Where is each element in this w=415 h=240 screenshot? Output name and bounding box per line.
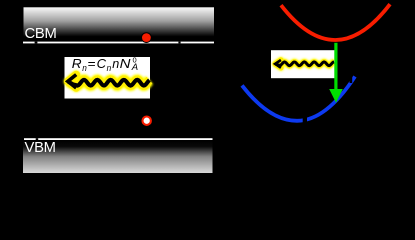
photon arrow 1 head xyxy=(68,75,76,88)
photon arrow 1 glow solid layer xyxy=(68,80,149,86)
small gap in CBM line at x=178 xyxy=(178,42,180,44)
photon wavy arrow 1 glow xyxy=(68,75,150,88)
photon wavy arrow 2 (black) xyxy=(275,62,334,66)
svg-text:n: n xyxy=(112,56,119,71)
blue band (parabola, VB dispersion) left half xyxy=(242,85,297,120)
recombination-rate formula box xyxy=(65,57,151,99)
svg-text:C: C xyxy=(97,56,107,71)
conduction band bar (CBM) xyxy=(24,7,215,41)
svg-text:n: n xyxy=(107,63,112,74)
gap in VBM line under label halo xyxy=(36,138,39,140)
svg-text:=: = xyxy=(88,56,96,71)
electron (filled red dot) xyxy=(142,33,151,42)
hole (open red circle) xyxy=(143,117,151,125)
svg-text:A: A xyxy=(131,62,138,73)
photon wavy arrow 1 (black) xyxy=(68,80,149,86)
dash gap 1 in blue band xyxy=(303,117,307,125)
photon wavy arrow 2 glow xyxy=(275,60,334,68)
green transition arrow shaft xyxy=(334,43,337,91)
svg-text:n: n xyxy=(82,63,87,74)
blue band right half xyxy=(297,77,355,121)
formula R_n = C_n n N_A^0 xyxy=(72,56,138,75)
red band (parabola, CB dispersion) xyxy=(281,4,390,40)
valence band bar (VBM) xyxy=(23,140,213,173)
VBM band-edge line xyxy=(24,138,213,140)
photon box (right) xyxy=(271,50,335,78)
svg-text:N: N xyxy=(120,56,132,71)
svg-text:R: R xyxy=(72,56,82,71)
gap in CBM line under label halo xyxy=(35,42,38,44)
electron halo xyxy=(141,32,152,43)
dash gap 2 in blue band xyxy=(350,74,353,83)
photon arrow 2 head xyxy=(275,60,281,68)
svg-text:CBM: CBM xyxy=(25,26,57,42)
CBM band-edge line xyxy=(23,42,214,44)
photon arrow 2 glow solid layer xyxy=(275,62,334,66)
svg-text:VBM: VBM xyxy=(25,140,56,156)
green arrowhead xyxy=(329,89,343,103)
